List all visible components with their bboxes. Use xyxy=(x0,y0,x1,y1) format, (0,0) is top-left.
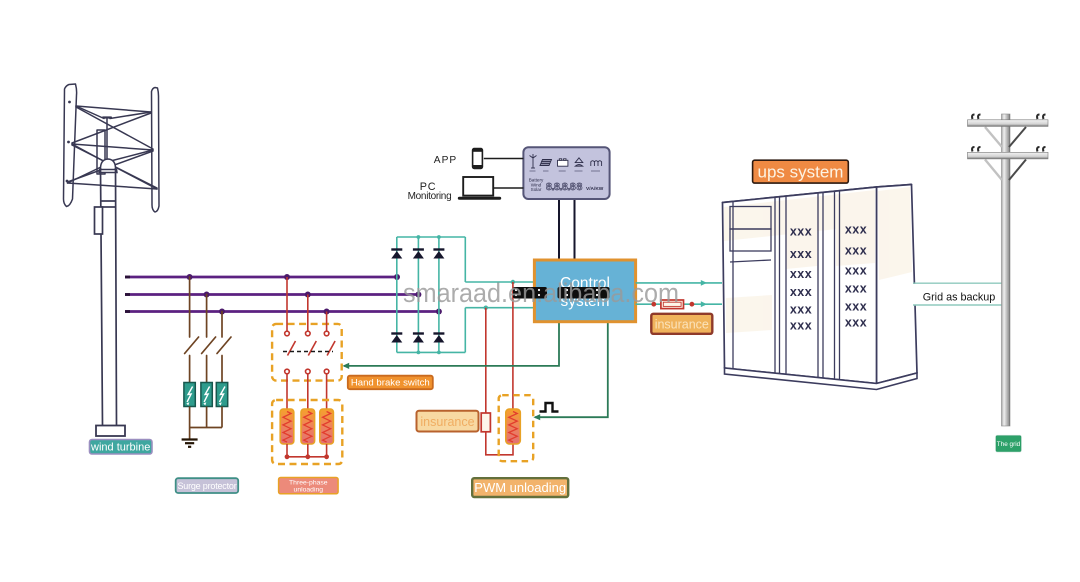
rectifier bridge frame xyxy=(397,237,466,352)
svg-text:PWM unloading: PWM unloading xyxy=(474,480,566,495)
svg-text:xxx: xxx xyxy=(790,267,812,281)
svg-text:unloading: unloading xyxy=(294,487,324,494)
cabinet door dividers xyxy=(730,191,840,380)
cabinet plinth xyxy=(725,368,918,390)
The grid label xyxy=(996,436,1021,452)
wire phone to panel xyxy=(484,158,524,160)
svg-text:insurance: insurance xyxy=(420,415,474,429)
contactor dashed enclosure xyxy=(272,324,342,381)
PWM dashed enclosure xyxy=(499,395,534,461)
svg-text:xxx: xxx xyxy=(845,263,867,277)
UPS cabinet body xyxy=(723,185,918,384)
PWM control wire xyxy=(535,322,608,418)
grid wire to pole xyxy=(913,283,1002,305)
wind turbine label xyxy=(90,440,153,455)
svg-text:Grid as backup: Grid as backup xyxy=(923,291,996,303)
svg-text:V/A/KW: V/A/KW xyxy=(586,186,604,192)
Three-phase unloading label xyxy=(279,478,339,494)
contactor mechanical link (dashed) xyxy=(283,351,333,353)
svg-text:Monitoring: Monitoring xyxy=(408,191,452,202)
svg-text:xxx: xxx xyxy=(845,282,867,296)
resistor bottom bus xyxy=(287,444,327,457)
DC+ wire to controller xyxy=(465,281,534,283)
3-phase bus L3 xyxy=(125,310,439,313)
braking resistors R1 R2 R3 xyxy=(280,409,294,444)
ups system label xyxy=(753,160,849,183)
wire laptop to panel xyxy=(494,187,523,189)
PWM DC- tap wire xyxy=(486,308,513,455)
svg-text:xxx: xxx xyxy=(845,315,867,329)
smartphone icon xyxy=(472,148,483,169)
insulators xyxy=(972,115,1045,152)
svg-text:wind turbine: wind turbine xyxy=(90,442,150,454)
cabinet vent rows xyxy=(790,222,867,332)
crossarm 1 xyxy=(968,120,1049,127)
svg-text:8: 8 xyxy=(577,181,583,193)
turbine base plate xyxy=(96,426,125,437)
unloading resistors dashed enclosure xyxy=(272,400,342,464)
diodes D1-D6 xyxy=(391,250,444,343)
fuse F1 (insurance) on tap wire xyxy=(481,413,490,432)
surge arresters xyxy=(184,383,195,407)
svg-text:APP: APP xyxy=(434,155,457,166)
3-phase bus L2 xyxy=(125,293,418,296)
hand brake control wire xyxy=(344,322,559,366)
bus junction dots xyxy=(187,274,442,315)
arrester common wire xyxy=(190,407,222,439)
utility pole xyxy=(1002,114,1011,426)
pole braces xyxy=(985,127,1026,180)
3-phase bus L1 xyxy=(125,276,397,279)
PWM unloading label xyxy=(472,478,568,497)
svg-text:xxx: xxx xyxy=(790,247,812,261)
AC output wire to UPS xyxy=(636,282,722,284)
ground xyxy=(182,440,198,447)
bus start caps xyxy=(125,277,130,312)
svg-text:xxx: xxx xyxy=(845,300,867,314)
svg-text:Solar: Solar xyxy=(531,187,542,192)
DC tap dots xyxy=(484,280,516,310)
watermark mask boxes xyxy=(513,287,610,299)
svg-text:Surge protector: Surge protector xyxy=(177,481,236,491)
svg-text:8.8.8.8: 8.8.8.8 xyxy=(546,181,576,193)
svg-text:xxx: xxx xyxy=(790,318,812,332)
svg-text:The grid: The grid xyxy=(997,441,1021,448)
turbine hub xyxy=(99,159,117,173)
PWM pulse symbol xyxy=(540,403,559,412)
svg-text:ups system: ups system xyxy=(758,163,844,182)
disconnect switches S1 S2 S3 xyxy=(185,277,231,383)
svg-text:xxx: xxx xyxy=(845,222,867,236)
bridge junction dots xyxy=(417,235,441,354)
DC- wire to controller xyxy=(465,307,534,309)
PWM braking resistor xyxy=(506,409,521,444)
laptop icon xyxy=(458,177,501,200)
fuse F2 (insurance) xyxy=(651,300,694,309)
insurance label (left) xyxy=(417,411,479,432)
crossarm 2 xyxy=(968,152,1049,159)
wind turbine xyxy=(64,84,160,212)
monitoring panel xyxy=(523,147,609,199)
Hand brake switch label xyxy=(348,376,433,390)
svg-text:Hand brake switch: Hand brake switch xyxy=(351,378,430,389)
svg-text:xxx: xxx xyxy=(790,225,812,239)
controller-panel link wires xyxy=(559,199,575,260)
svg-text:Three-phase: Three-phase xyxy=(289,480,328,487)
insurance label (right) xyxy=(651,314,712,334)
PWM DC+ tap wire xyxy=(512,282,514,409)
svg-text:smaraad.en.alibaba.com: smaraad.en.alibaba.com xyxy=(403,278,679,308)
turbine tower xyxy=(95,168,117,426)
contactor K1 (3 poles) xyxy=(285,277,335,409)
svg-text:xxx: xxx xyxy=(845,243,867,257)
AC output wire 2 with fuse xyxy=(636,303,722,305)
controller U1 (Control system) xyxy=(534,260,635,322)
svg-text:insurance: insurance xyxy=(655,318,709,332)
Surge protector label xyxy=(176,478,239,493)
svg-text:xxx: xxx xyxy=(790,303,812,317)
svg-text:xxx: xxx xyxy=(790,285,812,299)
